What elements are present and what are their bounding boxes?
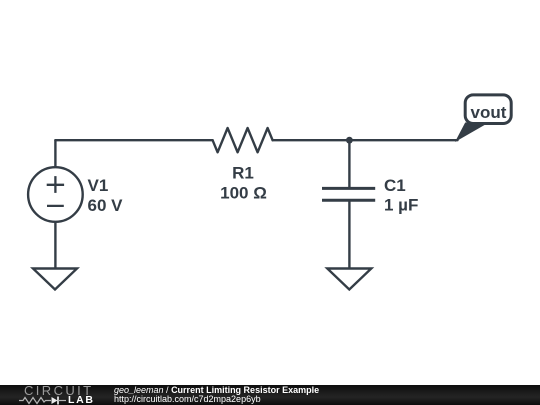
ground — [327, 269, 371, 290]
svg-text:60 V: 60 V — [88, 196, 124, 215]
wire — [54, 140, 56, 167]
svg-text:100 Ω: 100 Ω — [220, 183, 267, 202]
logo resistor — [19, 397, 51, 403]
ground — [33, 269, 77, 290]
voltage source V1 — [28, 167, 83, 222]
node junction — [346, 137, 353, 144]
wire — [348, 202, 350, 269]
resistor R1 — [213, 128, 273, 152]
wire — [348, 140, 350, 187]
footer bar — [0, 385, 540, 405]
wire — [273, 139, 350, 141]
svg-text:C1: C1 — [384, 176, 406, 195]
wire — [55, 139, 212, 141]
capacitor C1 — [322, 188, 375, 200]
svg-text:V1: V1 — [88, 176, 109, 195]
logo diode — [52, 397, 58, 404]
wire — [54, 222, 56, 269]
svg-text:1 µF: 1 µF — [384, 196, 418, 215]
svg-text:R1: R1 — [232, 164, 254, 183]
footer text — [114, 386, 319, 405]
svg-text:vout: vout — [471, 103, 507, 122]
node vout — [456, 95, 511, 141]
wire — [349, 139, 457, 141]
CircuitLab logo — [18, 385, 98, 405]
